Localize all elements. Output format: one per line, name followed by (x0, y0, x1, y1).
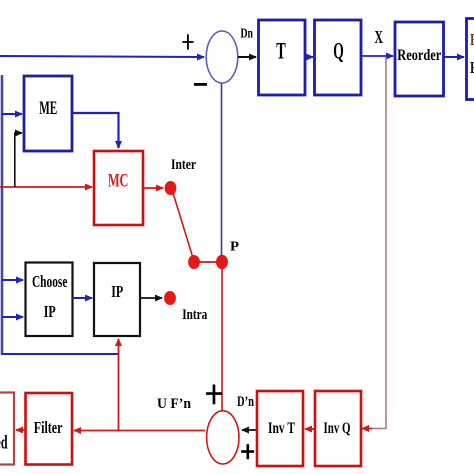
label plus top summer (182, 34, 193, 49)
wire ME to MC elbow (72, 113, 119, 148)
block Entropy encode (cut off) (467, 19, 474, 100)
node Inter (165, 181, 177, 195)
svg-text:Reorder: Reorder (397, 47, 441, 64)
wire bus bottom elbow to IP junction (2, 353, 119, 355)
wire bus to Choose IP lower (2, 316, 23, 318)
node Intra (164, 291, 176, 305)
svg-text:IP: IP (44, 302, 56, 321)
svg-text:ed: ed (0, 433, 8, 454)
wire bus to ME (2, 113, 22, 115)
wire IP to Intra node (140, 297, 162, 299)
wire uF'n up into IP (118, 339, 120, 431)
wire InvQ to InvT (305, 428, 315, 430)
wire bus to Choose IP upper (2, 279, 23, 281)
svg-text:Dn: Dn (241, 27, 254, 42)
svg-text:Inv T: Inv T (268, 420, 295, 437)
svg-text:IP: IP (111, 282, 123, 301)
label plus summer2 top (206, 385, 222, 405)
wire X tap down (363, 57, 386, 429)
block Choose IP (26, 263, 73, 337)
node switch common (188, 255, 200, 269)
wire Fn input to summer (0, 56, 204, 57)
block Reorder (395, 22, 444, 96)
svg-text:MC: MC (108, 171, 129, 192)
block MC (94, 151, 143, 225)
block Filter (26, 393, 73, 465)
wire ref frame to MC (0, 186, 92, 188)
svg-text:X: X (375, 27, 384, 47)
wire summer1 to T (238, 56, 256, 58)
label plus summer2 right (241, 444, 254, 459)
wire summer2 out to Filter (74, 430, 205, 432)
block Inv Q (315, 391, 361, 466)
node P (216, 255, 228, 269)
svg-text:T: T (276, 39, 286, 64)
wire MC to Inter node (143, 187, 163, 189)
wire P down to summer2 (221, 262, 223, 410)
block Q (315, 20, 362, 95)
wire arrow into InvQ (362, 428, 372, 430)
svg-text:ME: ME (39, 98, 57, 119)
block T (259, 20, 306, 95)
wire Filter to reconstructed frame (16, 429, 26, 431)
wire summer1 down to P (221, 83, 223, 258)
wire T to Q (305, 56, 313, 58)
block IP (94, 263, 140, 336)
svg-text:D’n: D’n (237, 394, 254, 410)
block Inv T (257, 391, 303, 466)
wire Q to Reorder (361, 55, 393, 57)
svg-text:Inter: Inter (171, 157, 196, 173)
block ME (24, 76, 72, 151)
wire switch arm (173, 193, 193, 258)
wire Fn vertical bus (1, 75, 4, 355)
wire InvT to summer2 (242, 429, 256, 431)
svg-text:E: E (470, 30, 474, 49)
wire Choose IP to IP (73, 297, 93, 299)
svg-text:Inv Q: Inv Q (324, 420, 351, 437)
svg-text:Choose: Choose (32, 272, 68, 291)
wire Reorder to Entropy (444, 56, 465, 58)
wire black tap to ME (15, 133, 22, 187)
node summer2 (207, 411, 239, 464)
wire switch to P (194, 261, 222, 263)
svg-text:E: E (470, 58, 474, 77)
block reconstructed (cut off) (0, 393, 14, 465)
svg-text:Filter: Filter (34, 418, 63, 437)
svg-text:Q: Q (333, 39, 344, 64)
node summer1 (206, 31, 238, 83)
svg-text:P: P (230, 240, 239, 255)
svg-text:U F’n: U F’n (157, 396, 191, 412)
label minus top summer (194, 83, 207, 86)
svg-text:Intra: Intra (182, 307, 208, 323)
